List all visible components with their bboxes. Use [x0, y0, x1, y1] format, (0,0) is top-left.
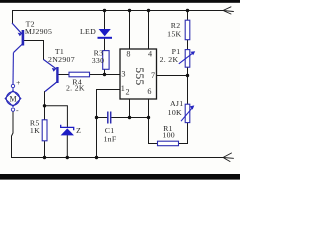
wire: bus right of C1 [112, 117, 149, 119]
wire: left drop from rail to T2 emitter [12, 11, 14, 24]
wire: node A branch to zener [45, 106, 68, 127]
node A: T1 collector / R5 / zener [43, 104, 46, 107]
wire: 555 pin 6 down to bus [148, 99, 150, 118]
svg-text:555: 555 [133, 67, 145, 85]
wire: R4 to 555 pin 3 [90, 74, 121, 76]
wire: rail to R2 [187, 11, 189, 21]
resistor R2 15K [185, 20, 190, 40]
wire: motor column to bottom left corner [12, 111, 14, 157]
connector arrow top right [223, 7, 234, 14]
potentiometer AJ1 10K [181, 104, 194, 122]
node: R5-ground junction [43, 156, 46, 159]
node: rail-pin4 junction [147, 9, 150, 12]
terminal - [11, 108, 14, 111]
wire: R3 to pin3 node [104, 69, 106, 74]
node: bus-pin6-R1 junction [147, 116, 150, 119]
node: zener-ground junction [66, 156, 69, 159]
wire: zener to ground rail [66, 135, 68, 157]
transistor T2 (MJ2905 PNP) [12, 23, 23, 84]
svg-text:MJ2905: MJ2905 [25, 27, 52, 36]
wire: R2 to P1 [187, 40, 189, 50]
motor M [5, 88, 21, 107]
svg-text:1: 1 [121, 84, 125, 93]
node: pin1-ground junction [95, 156, 98, 159]
svg-text:+: + [16, 78, 21, 87]
zener diode Z [61, 125, 74, 136]
wire: 555 pin 7 to P1/AJ1 node [157, 75, 188, 77]
wire: R5 to ground rail [44, 141, 46, 158]
node B: pin7 / P1 / AJ1 [186, 74, 189, 77]
svg-text:C1: C1 [105, 126, 115, 135]
wire: 555 pin 1 to ground [97, 90, 121, 158]
svg-text:1K: 1K [30, 126, 40, 135]
svg-text:8: 8 [126, 49, 130, 58]
svg-text:Z: Z [76, 126, 81, 135]
resistor R5 1K [42, 120, 47, 141]
svg-text:6: 6 [147, 87, 151, 96]
connector arrow bottom right [223, 153, 234, 162]
wire: P1 to node B [187, 67, 189, 75]
svg-text:7: 7 [151, 71, 155, 80]
wire: R1 to AJ1 bottom [179, 123, 188, 144]
wire: 555 pin 4 from rail [148, 11, 150, 50]
wire: node B to AJ1 [187, 76, 189, 105]
top border bar [0, 0, 240, 3]
svg-text:2. 2K: 2. 2K [160, 55, 179, 64]
svg-text:AJ1: AJ1 [170, 99, 183, 108]
resistor R3 330 [103, 51, 109, 70]
wire: T1 base to R4 [59, 74, 69, 76]
wire: LED column from rail [104, 11, 106, 30]
node: rail-pin8 junction [128, 9, 131, 12]
node: bus-pin2 junction [128, 116, 131, 119]
svg-text:M: M [9, 94, 16, 103]
svg-text:10K: 10K [168, 108, 182, 117]
svg-text:2N2907: 2N2907 [48, 55, 75, 64]
svg-text:15K: 15K [167, 30, 181, 39]
wire: T2 base to T1 emitter [24, 41, 43, 60]
svg-text:1nF: 1nF [103, 135, 116, 144]
svg-text:3: 3 [121, 70, 125, 79]
wire: 555 pin 8 from rail [129, 11, 131, 50]
svg-text:LED: LED [80, 27, 96, 36]
svg-text:-: - [16, 106, 19, 115]
resistor R1 100 [158, 141, 179, 146]
node: R3/R4/pin3 junction [103, 73, 106, 76]
terminal + [11, 84, 14, 87]
LED [98, 29, 113, 38]
svg-text:2: 2 [125, 87, 129, 96]
wire: bottom rail GND [12, 157, 224, 159]
capacitor C1 1nF [108, 112, 111, 124]
node: ground-C1 junction [95, 116, 98, 119]
wire: 555 pin 2 down to bus [129, 99, 131, 118]
wire: top rail V+ [13, 10, 224, 12]
node: rail-R2 junction [186, 9, 189, 12]
bottom border bar [0, 174, 240, 180]
wire: pin6 node down to R1 [149, 118, 158, 144]
svg-text:4: 4 [148, 50, 152, 59]
potentiometer P1 2.2K [179, 50, 195, 68]
wire: bus left of C1 [97, 117, 108, 119]
svg-text:330: 330 [92, 56, 105, 65]
svg-text:100: 100 [162, 130, 175, 139]
wire: T1 collector down to node A [44, 92, 46, 120]
node: rail-LED junction [103, 9, 106, 12]
svg-text:2. 2K: 2. 2K [66, 84, 85, 93]
op-amp U1: 555 timer IC box [120, 49, 157, 99]
transistor T1 (2N2907 PNP) [44, 60, 58, 92]
resistor R4 2.2K [69, 72, 90, 77]
wire: LED cathode to R3 [104, 39, 106, 51]
